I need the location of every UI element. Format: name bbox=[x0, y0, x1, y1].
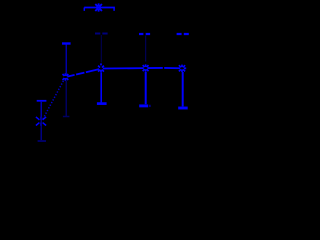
error bar 2 top cap (dim dashes) bbox=[95, 33, 108, 35]
error bar 3 bottom cap faint tail bbox=[149, 105, 150, 107]
error bar 1 top cap bbox=[37, 100, 47, 102]
series line segments m0-m2-m3-m4 bbox=[67, 68, 186, 77]
marker m3 bbox=[143, 64, 149, 71]
error bar 3 upper line (dim) bbox=[145, 36, 147, 62]
error bar 0 bottom cap (dim) bbox=[63, 116, 70, 118]
series line segment m1-m0 (dotted rise) bbox=[43, 80, 64, 120]
error bar 4 lower line bbox=[182, 72, 184, 106]
error bar 0 top cap bbox=[62, 42, 71, 44]
error bar 3 lower line bbox=[145, 72, 147, 104]
error bar 4 bottom cap bbox=[178, 107, 188, 110]
marker m2 bbox=[98, 63, 104, 72]
marker m4 bbox=[179, 65, 185, 72]
legend sample line bbox=[84, 8, 115, 11]
error bar 3 top cap (dashes) bbox=[139, 33, 150, 35]
marker m1 bbox=[36, 117, 46, 126]
error bar 1 lower line (dim) bbox=[40, 117, 42, 141]
error bar 1 bottom cap (dim) bbox=[38, 140, 46, 142]
error bar 3 bottom cap bbox=[139, 104, 148, 107]
error bar 1 upper line bbox=[40, 102, 42, 117]
error bar 0 lower line (dim) bbox=[65, 81, 67, 117]
marker m0 bbox=[63, 73, 69, 80]
legend marker (asterisk) bbox=[95, 3, 102, 11]
error bar 2 lower line bbox=[100, 72, 102, 102]
error bar 4 top cap (dashes) bbox=[177, 33, 189, 35]
error bar 2 bottom cap bbox=[97, 102, 107, 105]
error bar 0 upper line bbox=[65, 45, 67, 76]
error bar 2 upper line (dim) bbox=[100, 35, 102, 63]
